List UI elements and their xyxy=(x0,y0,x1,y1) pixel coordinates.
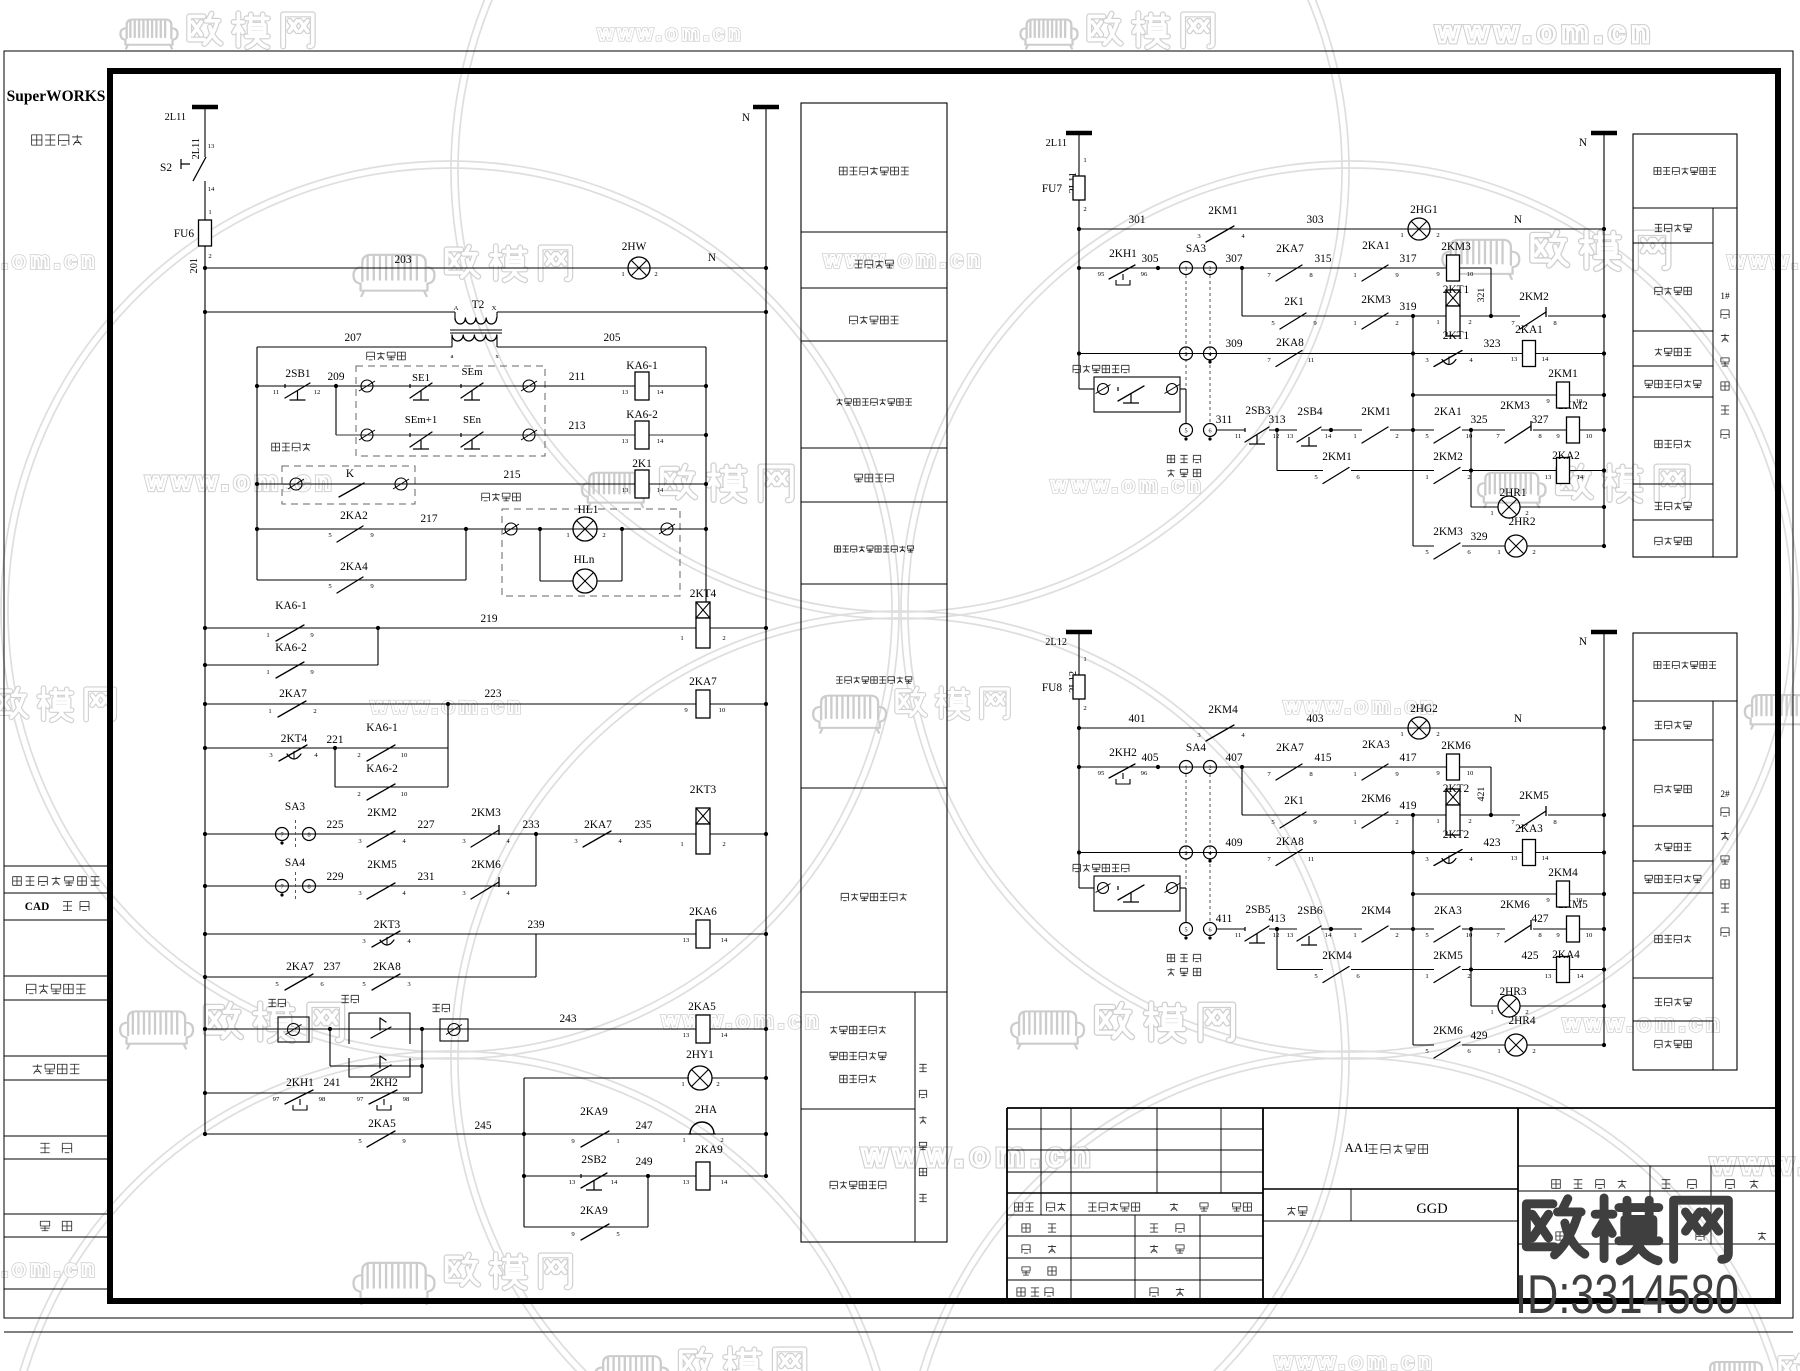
svg-text:203: 203 xyxy=(395,254,412,266)
svg-text:2: 2 xyxy=(1395,320,1398,327)
relay coil 2KA7 xyxy=(696,690,710,718)
svg-text:12: 12 xyxy=(1273,932,1280,939)
fire emergency pushbutton box xyxy=(1073,864,1080,871)
svg-text:2SB6: 2SB6 xyxy=(1297,905,1323,917)
svg-text:2KT1: 2KT1 xyxy=(1443,330,1469,342)
svg-text:415: 415 xyxy=(1315,752,1332,764)
lamp 2HR1 rung xyxy=(1471,506,1498,508)
svg-text:www.om.cn: www.om.cn xyxy=(1274,1349,1436,1371)
svg-text:10: 10 xyxy=(719,707,726,714)
svg-text:4: 4 xyxy=(1208,850,1211,857)
svg-text:2KA7: 2KA7 xyxy=(1276,742,1304,754)
svg-text:95: 95 xyxy=(1098,770,1105,777)
terminal bar 2L12 and N bus xyxy=(1066,630,1092,635)
contactor coil 2KM4 xyxy=(1413,893,1557,895)
svg-text:6: 6 xyxy=(1208,927,1211,934)
svg-text:97: 97 xyxy=(273,1096,280,1103)
svg-text:1: 1 xyxy=(208,209,211,216)
svg-text:7: 7 xyxy=(280,832,283,839)
svg-text:2KA8: 2KA8 xyxy=(1276,337,1304,349)
svg-text:SA3: SA3 xyxy=(285,801,305,813)
wire 237 rung, contacts 2KA7 2KA8 xyxy=(205,976,536,978)
wire 309-323 rung, contact 2KA8, delay contact 2KT1, coil 2KA1 xyxy=(1079,353,1413,355)
svg-text:98: 98 xyxy=(319,1096,326,1103)
svg-text:13: 13 xyxy=(1545,973,1552,980)
svg-text:12: 12 xyxy=(1273,433,1280,440)
svg-text:13: 13 xyxy=(1287,433,1294,440)
svg-text:247: 247 xyxy=(636,1120,653,1132)
svg-text:2L11: 2L11 xyxy=(165,112,186,123)
svg-text:HLn: HLn xyxy=(574,554,595,566)
svg-text:301: 301 xyxy=(1129,214,1146,226)
svg-text:2: 2 xyxy=(1208,266,1211,273)
svg-text:www.om.cn: www.om.cn xyxy=(1435,16,1656,49)
contact 2KA9 self-hold branch xyxy=(524,1226,648,1228)
svg-text:407: 407 xyxy=(1226,752,1243,764)
svg-text:2KH1: 2KH1 xyxy=(1109,248,1137,260)
svg-text:SA3: SA3 xyxy=(1186,243,1206,255)
title block table xyxy=(1007,1107,1778,1109)
svg-text:10: 10 xyxy=(401,791,408,798)
svg-text:14: 14 xyxy=(721,1032,728,1039)
svg-text:221: 221 xyxy=(327,734,344,746)
svg-text:1: 1 xyxy=(1497,549,1500,556)
svg-text:10: 10 xyxy=(401,752,408,759)
svg-text:10: 10 xyxy=(1576,398,1583,405)
svg-text:2KA1: 2KA1 xyxy=(1515,324,1543,336)
svg-text:2KM1: 2KM1 xyxy=(1548,368,1578,380)
svg-text:10: 10 xyxy=(1466,932,1473,939)
svg-text:10: 10 xyxy=(1586,433,1593,440)
svg-text:95: 95 xyxy=(1098,271,1105,278)
svg-text:305: 305 xyxy=(1142,253,1159,265)
svg-text:1: 1 xyxy=(1497,1048,1500,1055)
svg-text:X: X xyxy=(492,305,497,312)
svg-text:2KM1: 2KM1 xyxy=(1208,205,1238,217)
svg-text:2KA1: 2KA1 xyxy=(1434,406,1462,418)
svg-text:2: 2 xyxy=(1532,1048,1535,1055)
svg-text:1: 1 xyxy=(1400,731,1403,738)
svg-text:A: A xyxy=(454,305,459,312)
svg-text:2KA4: 2KA4 xyxy=(1552,949,1580,961)
svg-text:315: 315 xyxy=(1315,253,1332,265)
svg-text:2KA6: 2KA6 xyxy=(689,906,717,918)
svg-text:2KA7: 2KA7 xyxy=(279,688,307,700)
svg-text:2: 2 xyxy=(722,841,725,848)
svg-text:14: 14 xyxy=(611,1179,618,1186)
svg-text:2KA5: 2KA5 xyxy=(688,1001,716,1013)
svg-text:2KH2: 2KH2 xyxy=(1109,747,1137,759)
svg-text:11: 11 xyxy=(1308,856,1314,863)
svg-text:a: a xyxy=(451,353,454,360)
svg-text:14: 14 xyxy=(721,937,728,944)
wire 207 xyxy=(257,346,452,348)
wire 329 rung, contact 2KM3, lamp 2HR2 xyxy=(1413,545,1434,547)
svg-text:2: 2 xyxy=(1083,206,1086,213)
svg-text:227: 227 xyxy=(418,819,435,831)
svg-text:2KA8: 2KA8 xyxy=(1276,836,1304,848)
svg-text:2KA1: 2KA1 xyxy=(1362,240,1390,252)
svg-text:2KA2: 2KA2 xyxy=(340,510,368,522)
svg-text:2: 2 xyxy=(722,635,725,642)
svg-text:www.om.cn: www.om.cn xyxy=(0,248,99,273)
svg-text:2KA7: 2KA7 xyxy=(689,676,717,688)
svg-text:8: 8 xyxy=(307,832,310,839)
svg-text:1#: 1# xyxy=(1720,292,1730,302)
svg-text:413: 413 xyxy=(1269,913,1286,925)
svg-text:SEn: SEn xyxy=(463,414,482,426)
svg-text:KA6-1: KA6-1 xyxy=(626,360,657,372)
svg-text:2HG2: 2HG2 xyxy=(1410,703,1438,715)
svg-text:CAD: CAD xyxy=(25,901,50,913)
wire 203 rung xyxy=(205,267,766,269)
svg-text:245: 245 xyxy=(475,1120,492,1132)
svg-text:97: 97 xyxy=(357,1096,364,1103)
svg-text:14: 14 xyxy=(1577,474,1584,481)
svg-text:403: 403 xyxy=(1307,713,1324,725)
svg-text:329: 329 xyxy=(1471,531,1488,543)
svg-text:98: 98 xyxy=(403,1096,410,1103)
svg-text:2KM6: 2KM6 xyxy=(1441,740,1471,752)
svg-text:www.om.cn: www.om.cn xyxy=(145,466,336,496)
svg-text:2: 2 xyxy=(1208,765,1211,772)
wire 225-235 rung, selector SA3, contacts 2KM2 2KM3 2KA7 xyxy=(205,833,697,835)
svg-text:13: 13 xyxy=(683,1179,690,1186)
svg-text:1: 1 xyxy=(1353,819,1356,826)
svg-text:6: 6 xyxy=(1208,428,1211,435)
fire hydrant box SE1..SEn dashed enclosure xyxy=(356,366,545,456)
svg-text:2KT2: 2KT2 xyxy=(1443,829,1470,841)
svg-text:13: 13 xyxy=(683,937,690,944)
svg-text:N: N xyxy=(742,112,750,124)
svg-text:249: 249 xyxy=(636,1156,653,1168)
wire 219 rung, contacts KA6-1 KA6-2 xyxy=(205,627,378,629)
svg-text:2: 2 xyxy=(1395,433,1398,440)
svg-text:FU6: FU6 xyxy=(174,228,194,240)
wire 239 rung, delay contact 2KT3 xyxy=(205,933,697,935)
svg-text:T2: T2 xyxy=(472,299,485,311)
svg-text:GGD: GGD xyxy=(1416,1201,1447,1217)
svg-text:2: 2 xyxy=(1532,549,1535,556)
svg-text:14: 14 xyxy=(208,186,215,193)
svg-text:309: 309 xyxy=(1226,338,1243,350)
svg-text:1: 1 xyxy=(1353,433,1356,440)
svg-text:14: 14 xyxy=(1542,356,1549,363)
svg-text:2KM6: 2KM6 xyxy=(1433,1025,1463,1037)
svg-text:1: 1 xyxy=(1400,232,1403,239)
svg-text:2KM2: 2KM2 xyxy=(1519,291,1549,303)
svg-text:2KA4: 2KA4 xyxy=(340,561,368,573)
wire 241 rung, thermal contacts 2KH1 2KH2 xyxy=(205,1092,422,1094)
wire 409-423 rung, contact 2KA8, delay contact 2KT2, coil 2KA3 xyxy=(1079,852,1413,854)
svg-text:1: 1 xyxy=(682,1137,685,1144)
svg-text:11: 11 xyxy=(1235,433,1241,440)
svg-text:13: 13 xyxy=(208,143,215,150)
svg-text:13: 13 xyxy=(1511,356,1518,363)
svg-text:N: N xyxy=(1514,214,1522,226)
svg-text:www.om.cn: www.om.cn xyxy=(0,1256,99,1281)
time relay coil 2KT3 xyxy=(696,808,710,824)
svg-text:www.om.cn: www.om.cn xyxy=(1727,248,1800,273)
svg-text:2KA7: 2KA7 xyxy=(584,819,612,831)
svg-text:SA4: SA4 xyxy=(285,857,305,869)
svg-text:13: 13 xyxy=(622,487,629,494)
svg-text:1: 1 xyxy=(1184,266,1187,273)
svg-text:307: 307 xyxy=(1226,253,1243,265)
svg-text:13: 13 xyxy=(1511,855,1518,862)
svg-text:2KM3: 2KM3 xyxy=(471,807,501,819)
svg-text:2KM6: 2KM6 xyxy=(1500,899,1530,911)
svg-text:2: 2 xyxy=(602,532,605,539)
svg-text:3: 3 xyxy=(1184,351,1187,358)
svg-text:405: 405 xyxy=(1142,752,1159,764)
svg-text:2KM5: 2KM5 xyxy=(1433,950,1463,962)
svg-text:2KM3: 2KM3 xyxy=(1433,526,1463,538)
svg-text:2KM6: 2KM6 xyxy=(1361,793,1391,805)
svg-text:2: 2 xyxy=(357,752,360,759)
svg-text:1: 1 xyxy=(1425,474,1428,481)
wire 401 rung, contact 2KM4, lamp 2HG2 xyxy=(1079,727,1604,729)
svg-text:235: 235 xyxy=(635,819,652,831)
svg-text:2SB1: 2SB1 xyxy=(285,368,310,380)
svg-text:2: 2 xyxy=(1467,973,1470,980)
svg-text:2KA9: 2KA9 xyxy=(695,1144,723,1156)
wire 205 rung and transformer T2 xyxy=(205,311,455,313)
svg-text:2: 2 xyxy=(357,791,360,798)
wire 301 rung, contact 2KM1, lamp 2HG1 xyxy=(1079,228,1604,230)
svg-text:14: 14 xyxy=(657,487,664,494)
svg-text:2: 2 xyxy=(1436,232,1439,239)
rung with contacts 2KM4 2KM5, coil 2KA4 xyxy=(1276,929,1278,970)
svg-text:S2: S2 xyxy=(160,162,172,174)
svg-text:2KT3: 2KT3 xyxy=(690,784,717,796)
rung with contacts 2KM1 2KM2, coil 2KA2 xyxy=(1276,430,1278,471)
svg-text:2K1: 2K1 xyxy=(632,458,652,470)
svg-text:2: 2 xyxy=(313,708,316,715)
svg-text:2K1: 2K1 xyxy=(1284,795,1304,807)
svg-text:13: 13 xyxy=(622,438,629,445)
svg-text:419: 419 xyxy=(1400,800,1417,812)
svg-text:217: 217 xyxy=(421,513,438,525)
svg-text:211: 211 xyxy=(569,371,586,383)
svg-text:1: 1 xyxy=(266,632,269,639)
svg-text:2HR4: 2HR4 xyxy=(1508,1015,1535,1027)
svg-text:2HA: 2HA xyxy=(695,1104,718,1116)
svg-text:219: 219 xyxy=(481,613,498,625)
svg-text:FU8: FU8 xyxy=(1042,682,1062,694)
svg-text:1: 1 xyxy=(616,1138,619,1145)
svg-text:327: 327 xyxy=(1532,414,1549,426)
svg-text:N: N xyxy=(1579,636,1587,648)
svg-text:2: 2 xyxy=(208,253,211,260)
svg-text:5: 5 xyxy=(1184,927,1187,934)
svg-text:14: 14 xyxy=(1577,973,1584,980)
svg-text:2KM3: 2KM3 xyxy=(1500,400,1530,412)
svg-text:www.om.cn: www.om.cn xyxy=(1050,474,1205,497)
wire 311-327 rung, pushbuttons 2SB3 2SB4, contacts 2KM1 2KA1 2KM3, coil 2KM2 xyxy=(1180,424,1193,437)
svg-text:11: 11 xyxy=(273,389,279,396)
svg-text:11: 11 xyxy=(1235,932,1241,939)
svg-text:1: 1 xyxy=(1083,656,1086,663)
svg-text:2K1: 2K1 xyxy=(1284,296,1304,308)
watermark logos row 1 xyxy=(120,19,177,48)
svg-text:1: 1 xyxy=(1184,765,1187,772)
terminal bar 2L11 and N bus, ladder 1 xyxy=(192,105,218,110)
svg-text:1: 1 xyxy=(680,635,683,642)
svg-text:2KA8: 2KA8 xyxy=(373,961,401,973)
svg-text:325: 325 xyxy=(1471,414,1488,426)
svg-text:2L12: 2L12 xyxy=(1045,637,1067,648)
svg-text:1: 1 xyxy=(621,271,624,278)
wire 411-427 rung, pushbuttons 2SB5 2SB6, contacts 2KM4 2KA3 2KM6, coil 2KM5 xyxy=(1180,923,1193,936)
svg-text:2KT4: 2KT4 xyxy=(690,588,717,600)
svg-text:2KT4: 2KT4 xyxy=(281,733,308,745)
svg-text:425: 425 xyxy=(1522,950,1539,962)
svg-text:243: 243 xyxy=(560,1013,577,1025)
svg-text:1: 1 xyxy=(680,841,683,848)
svg-text:2HG1: 2HG1 xyxy=(1410,204,1438,216)
svg-text:2KT3: 2KT3 xyxy=(374,919,401,931)
wire 249 rung, pushbutton 2SB2, coil 2KA9 xyxy=(524,1175,697,1177)
svg-text:2SB5: 2SB5 xyxy=(1245,904,1271,916)
svg-text:13: 13 xyxy=(622,389,629,396)
wire 223 rung, contact 2KA7 xyxy=(205,703,697,705)
svg-text:2KH1: 2KH1 xyxy=(286,1077,314,1089)
svg-text:2KT1: 2KT1 xyxy=(1443,284,1469,296)
svg-text:317: 317 xyxy=(1400,253,1417,265)
svg-text:1: 1 xyxy=(1490,510,1493,517)
svg-text:2HR1: 2HR1 xyxy=(1499,487,1526,499)
svg-text:2KA2: 2KA2 xyxy=(1552,450,1580,462)
contactor coil 2KM1 xyxy=(1413,394,1557,396)
svg-text:2#: 2# xyxy=(1720,790,1730,800)
svg-text:1: 1 xyxy=(566,532,569,539)
svg-text:313: 313 xyxy=(1269,414,1286,426)
svg-text:241: 241 xyxy=(324,1077,341,1089)
svg-text:5: 5 xyxy=(1184,428,1187,435)
svg-text:2KM2: 2KM2 xyxy=(1433,451,1463,463)
svg-text:2: 2 xyxy=(1395,819,1398,826)
svg-text:409: 409 xyxy=(1226,837,1243,849)
svg-text:KA6-1: KA6-1 xyxy=(366,722,397,734)
function description column, ladder 1 xyxy=(801,103,947,1242)
svg-text:14: 14 xyxy=(657,389,664,396)
svg-text:2KM4: 2KM4 xyxy=(1322,950,1352,962)
svg-text:239: 239 xyxy=(528,919,545,931)
relay coil KA6-1 xyxy=(635,372,649,400)
svg-text:2KT2: 2KT2 xyxy=(1443,783,1470,795)
svg-text:237: 237 xyxy=(324,961,341,973)
svg-text:KA6-2: KA6-2 xyxy=(366,763,398,775)
svg-text:10: 10 xyxy=(1576,897,1583,904)
svg-text:2SB2: 2SB2 xyxy=(581,1154,607,1166)
svg-text:2: 2 xyxy=(716,1081,719,1088)
svg-text:2HW: 2HW xyxy=(622,241,647,253)
svg-text:1: 1 xyxy=(681,1081,684,1088)
function description columns, ladders 2 and 3 xyxy=(1633,134,1737,557)
svg-text:14: 14 xyxy=(1325,433,1332,440)
wire 215 rung, external control contact K xyxy=(272,443,280,451)
svg-text:2: 2 xyxy=(1395,932,1398,939)
svg-text:2KA3: 2KA3 xyxy=(1515,823,1543,835)
svg-text:10: 10 xyxy=(1586,932,1593,939)
svg-text:4: 4 xyxy=(1208,351,1211,358)
wire 245-247 rung, contacts 2KA5 2KA9, bell 2HA xyxy=(205,1133,524,1135)
svg-text:213: 213 xyxy=(569,420,586,432)
relay coil 2K1 xyxy=(635,470,649,498)
svg-text:2KA9: 2KA9 xyxy=(580,1205,608,1217)
svg-text:303: 303 xyxy=(1307,214,1324,226)
svg-text:225: 225 xyxy=(327,819,344,831)
svg-text:323: 323 xyxy=(1484,338,1501,350)
svg-text:2KM6: 2KM6 xyxy=(471,859,501,871)
svg-text:215: 215 xyxy=(504,469,521,481)
svg-text:SEm+1: SEm+1 xyxy=(405,414,438,426)
wire 217 rung, contact 2KA2, lamps HL1..HLn xyxy=(257,528,502,530)
svg-text:N: N xyxy=(1514,713,1522,725)
svg-text:2: 2 xyxy=(1468,818,1471,825)
svg-text:2L11: 2L11 xyxy=(191,138,202,159)
svg-text:www.om.cn: www.om.cn xyxy=(1562,1011,1724,1036)
svg-text:2KA7: 2KA7 xyxy=(286,961,314,973)
svg-text:2KM5: 2KM5 xyxy=(1519,790,1549,802)
svg-text:www.om.cn: www.om.cn xyxy=(861,1137,1096,1173)
svg-text:233: 233 xyxy=(523,819,540,831)
svg-text:1: 1 xyxy=(1353,272,1356,279)
lamp 2HY1 rung xyxy=(524,1077,689,1079)
svg-text:N: N xyxy=(1579,137,1587,149)
svg-text:2: 2 xyxy=(1467,474,1470,481)
svg-text:421: 421 xyxy=(1476,787,1487,802)
svg-text:1: 1 xyxy=(1425,973,1428,980)
svg-text:2KM1: 2KM1 xyxy=(1361,406,1391,418)
svg-text:14: 14 xyxy=(1325,932,1332,939)
svg-text:3: 3 xyxy=(1184,850,1187,857)
svg-text:2KH2: 2KH2 xyxy=(370,1077,398,1089)
svg-text:KA6-1: KA6-1 xyxy=(275,600,306,612)
svg-text:427: 427 xyxy=(1532,913,1549,925)
svg-text:2HR3: 2HR3 xyxy=(1499,986,1526,998)
svg-text:417: 417 xyxy=(1400,752,1417,764)
svg-text:2KA3: 2KA3 xyxy=(1362,739,1390,751)
wire 221 rung, delay contact 2KT4, contacts KA6-1 KA6-2 xyxy=(205,747,448,749)
wire 243 rung, liquid level floats xyxy=(205,1028,697,1030)
svg-text:KA6-2: KA6-2 xyxy=(275,642,307,654)
svg-text:SA4: SA4 xyxy=(1186,742,1206,754)
contact 2KA4 branch xyxy=(257,579,466,581)
svg-text:14: 14 xyxy=(1542,855,1549,862)
svg-text:2SB3: 2SB3 xyxy=(1245,405,1271,417)
svg-text:201: 201 xyxy=(189,258,200,273)
svg-text:www.om.cn: www.om.cn xyxy=(1710,1148,1800,1181)
svg-text:209: 209 xyxy=(328,371,345,383)
svg-text:96: 96 xyxy=(1141,770,1148,777)
dark site watermark and ID xyxy=(1526,1198,1728,1261)
svg-text:2: 2 xyxy=(720,1137,723,1144)
svg-text:SuperWORKS: SuperWORKS xyxy=(7,88,106,105)
svg-text:2KM4: 2KM4 xyxy=(1208,704,1238,716)
lamp 2HR3 rung xyxy=(1471,1005,1498,1007)
svg-text:2KM4: 2KM4 xyxy=(1548,867,1578,879)
svg-text:10: 10 xyxy=(1466,433,1473,440)
fire emergency pushbutton box xyxy=(1073,365,1080,372)
wire 229-231 rung, selector SA4, contacts 2KM5 2KM6 xyxy=(205,885,536,887)
svg-text:1: 1 xyxy=(1490,1009,1493,1016)
svg-text:423: 423 xyxy=(1484,837,1501,849)
svg-text:www.om.cn: www.om.cn xyxy=(597,23,744,45)
svg-text:SEm: SEm xyxy=(462,366,484,378)
svg-text:1: 1 xyxy=(1083,157,1086,164)
